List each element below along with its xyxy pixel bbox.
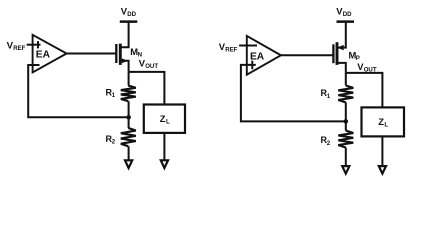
- svg-text:OUT: OUT: [364, 67, 377, 74]
- svg-text:EA: EA: [36, 50, 51, 61]
- svg-text:L: L: [384, 122, 388, 129]
- svg-text:REF: REF: [225, 47, 237, 54]
- svg-text:2: 2: [112, 139, 116, 146]
- svg-text:1: 1: [327, 93, 331, 100]
- svg-text:1: 1: [112, 92, 116, 99]
- svg-text:REF: REF: [13, 45, 25, 52]
- svg-text:L: L: [166, 118, 170, 125]
- svg-text:DD: DD: [343, 11, 352, 18]
- svg-text:Z: Z: [378, 117, 384, 127]
- svg-text:DD: DD: [127, 11, 136, 18]
- svg-text:2: 2: [327, 140, 331, 147]
- svg-text:Z: Z: [160, 114, 166, 124]
- svg-text:OUT: OUT: [145, 63, 158, 70]
